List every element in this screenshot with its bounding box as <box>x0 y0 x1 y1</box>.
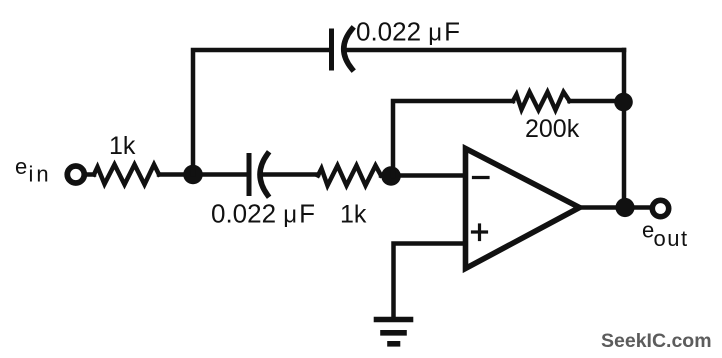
capacitor C1 0.022uF <box>332 29 353 69</box>
svg-text:out: out <box>654 226 689 251</box>
resistor R3 200k <box>513 92 570 110</box>
svg-text:200k: 200k <box>525 115 580 143</box>
svg-text:0.022 μF: 0.022 μF <box>356 17 460 47</box>
svg-text:SeekIC.com: SeekIC.com <box>601 330 712 352</box>
resistor R1 1k <box>94 165 159 185</box>
node A <box>183 165 203 185</box>
resistor R2 1k <box>318 166 381 186</box>
svg-text:in: in <box>29 162 52 187</box>
wire <box>570 99 625 104</box>
wire <box>381 173 464 178</box>
wire <box>393 101 513 176</box>
svg-text:1k: 1k <box>109 132 136 160</box>
wire <box>394 244 466 317</box>
op-amp plus pin <box>473 225 487 240</box>
svg-text:1k: 1k <box>340 201 367 229</box>
node B <box>381 166 401 186</box>
wire <box>193 50 329 175</box>
wire <box>159 172 248 177</box>
op-amp minus pin <box>474 176 489 179</box>
node C <box>614 93 633 112</box>
op-amp U1 <box>466 149 580 269</box>
node D <box>615 198 634 217</box>
wire <box>622 50 627 208</box>
svg-text:e: e <box>15 154 27 179</box>
wire <box>580 205 651 210</box>
svg-text:0.022 μF: 0.022 μF <box>211 199 315 229</box>
output terminal e_out <box>652 200 668 216</box>
wire <box>87 172 95 177</box>
capacitor C2 0.022uF <box>249 154 268 195</box>
wire <box>262 172 319 177</box>
wire <box>346 48 625 53</box>
input terminal e_in <box>67 166 84 183</box>
ground <box>377 320 411 344</box>
svg-text:e: e <box>642 218 654 243</box>
